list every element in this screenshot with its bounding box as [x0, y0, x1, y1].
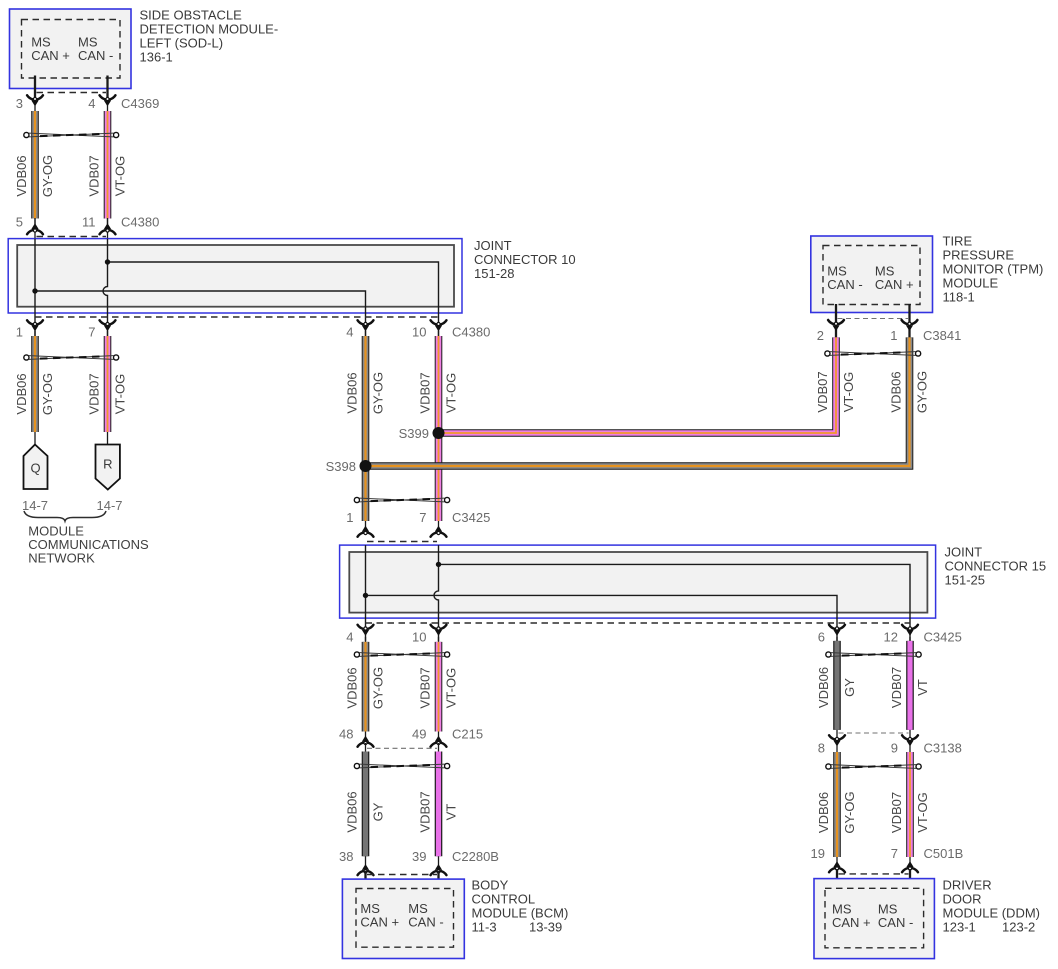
svg-text:7: 7	[419, 510, 426, 525]
inline connector hooks below C3425 (right)	[831, 653, 916, 657]
svg-text:C3425: C3425	[924, 630, 962, 645]
svg-text:118-1: 118-1	[943, 290, 975, 305]
svg-text:38: 38	[339, 849, 353, 864]
svg-text:VDB07: VDB07	[418, 791, 433, 832]
svg-text:C501B: C501B	[924, 846, 964, 861]
svg-text:4: 4	[346, 325, 353, 340]
svg-text:C4380: C4380	[452, 325, 490, 340]
connector C4380 pin 7 arrow	[100, 320, 116, 324]
svg-text:C3841: C3841	[923, 328, 961, 343]
svg-text:VDB07: VDB07	[418, 372, 433, 413]
connector C3138 dashed link	[839, 732, 909, 734]
svg-text:PRESSURE: PRESSURE	[943, 248, 1015, 263]
svg-text:VDB07: VDB07	[87, 373, 102, 414]
svg-text:11: 11	[82, 215, 96, 230]
svg-text:14-7: 14-7	[22, 498, 48, 513]
svg-text:VDB06: VDB06	[816, 792, 831, 833]
connector C3425 pin 6 arrow	[829, 625, 845, 629]
wire VDB06 GY-OG (SOD-L pin 3 to C4380 pin 5)	[34, 105, 36, 224]
svg-text:VT-OG: VT-OG	[112, 374, 127, 414]
svg-text:TIRE: TIRE	[943, 234, 973, 249]
svg-text:39: 39	[412, 849, 426, 864]
connector C3425 pin 4 arrow	[358, 625, 374, 629]
inline connector hooks above C2280B	[360, 764, 445, 768]
connector C4380 pin 1 arrow	[27, 320, 43, 324]
wire VDB07 VT-OG (C3138 pin 9 to DDM pin 7)	[909, 746, 911, 864]
svg-text:VT-OG: VT-OG	[112, 156, 127, 196]
connector C3841 dashed link	[838, 318, 909, 320]
svg-text:7: 7	[88, 325, 95, 340]
svg-text:VDB06: VDB06	[345, 667, 360, 708]
svg-text:S399: S399	[399, 426, 429, 441]
svg-text:151-28: 151-28	[474, 266, 514, 281]
joint connector 10 description	[474, 238, 576, 281]
joint connector 15 internal bus wire from pin 1 to pin 4 and pin 6	[365, 545, 367, 641]
svg-text:CAN -: CAN -	[827, 277, 862, 292]
connector C3425 pin 1 arrow	[358, 533, 374, 537]
connector C2280B dashed link	[367, 874, 437, 876]
svg-text:S398: S398	[326, 459, 356, 474]
connector C4380 pin 5 arrow	[34, 218, 36, 245]
svg-text:5: 5	[16, 215, 23, 230]
svg-text:123-1: 123-1	[943, 920, 976, 935]
connector C3425 pin 7 arrow	[431, 533, 447, 537]
svg-text:13-39: 13-39	[529, 919, 562, 934]
connector C3841 pin 1 arrow	[902, 320, 918, 324]
module communications network note	[28, 524, 149, 566]
svg-text:14-7: 14-7	[96, 498, 122, 513]
connector C4369 dashed link	[37, 92, 107, 94]
joint connector 10 internal bus wire from pin 11 to pin 7 and pin 10 (with hop)	[103, 239, 107, 336]
svg-text:C2280B: C2280B	[452, 849, 499, 864]
connector C3138 pin 8 arrow	[829, 735, 845, 739]
svg-text:7: 7	[891, 846, 898, 861]
connector C3841 pin 2 arrow	[828, 320, 844, 324]
wire VDB07 VT (C215 pin 49 to BCM pin 39)	[438, 743, 440, 866]
svg-text:CAN +: CAN +	[31, 48, 70, 63]
svg-text:VDB07: VDB07	[87, 155, 102, 196]
svg-text:123-2: 123-2	[1002, 920, 1035, 935]
svg-text:151-25: 151-25	[945, 573, 985, 588]
connector C4380 pin 10 arrow	[431, 320, 447, 324]
svg-text:9: 9	[891, 741, 898, 756]
svg-text:VDB06: VDB06	[345, 372, 360, 413]
svg-text:DOOR: DOOR	[943, 892, 982, 907]
connector C215 dashed link	[367, 747, 437, 749]
wire VDB07 VT-OG (C3425 pin 10 to C215 pin 49)	[438, 637, 440, 743]
svg-text:10: 10	[412, 630, 426, 645]
network connector Q symbol	[24, 445, 48, 490]
joint connector 15 junction node on VT bus	[436, 562, 441, 567]
connector C3425 dashed link (top)	[367, 541, 437, 543]
joint connector 10 junction node on GY-OG bus	[32, 288, 37, 293]
inline connector hooks on TPM wires	[830, 352, 916, 356]
wire VDB07 VT-OG (C4380 pin 7 to network connector R)	[107, 331, 109, 446]
wire VDB06 GY-OG (C3138 pin 8 to DDM pin 19)	[836, 746, 838, 864]
svg-text:C3138: C3138	[924, 741, 962, 756]
svg-text:MODULE (BCM): MODULE (BCM)	[472, 905, 569, 920]
wire stub SOD-L MS CAN -	[106, 76, 108, 98]
svg-text:BODY: BODY	[472, 877, 509, 892]
svg-text:JOINT: JOINT	[474, 238, 512, 253]
splice S399	[433, 427, 445, 439]
svg-text:GY-OG: GY-OG	[842, 791, 857, 833]
svg-text:GY: GY	[370, 802, 385, 821]
wire stub DDM MS CAN -	[909, 869, 911, 889]
svg-text:10: 10	[412, 325, 426, 340]
svg-text:DETECTION MODULE-: DETECTION MODULE-	[140, 22, 279, 37]
connector C2280B pin 39 arrow	[431, 871, 447, 875]
svg-text:CONTROL: CONTROL	[472, 891, 536, 906]
svg-text:VDB07: VDB07	[815, 371, 830, 412]
svg-text:2: 2	[817, 328, 824, 343]
svg-text:VT-OG: VT-OG	[915, 792, 930, 832]
svg-text:VT-OG: VT-OG	[443, 668, 458, 708]
svg-text:MONITOR (TPM): MONITOR (TPM)	[943, 262, 1044, 277]
module SOD-L description text	[140, 8, 279, 65]
svg-text:6: 6	[818, 630, 825, 645]
inline connector hooks above C501B	[831, 765, 916, 769]
module TPM (Tire Pressure Monitor) box 118-1	[811, 236, 933, 313]
connector C501B pin 19 arrow	[829, 868, 845, 872]
svg-text:VDB06: VDB06	[14, 155, 29, 196]
svg-text:GY-OG: GY-OG	[370, 667, 385, 709]
wire VDB06 GY-OG branch from splice S398 to TPM pin 1	[366, 337, 910, 466]
wire stub TPM MS CAN -	[835, 304, 837, 340]
joint connector 15 internal bus wire from pin 7 to pin 10 and pin 12 (with hop)	[434, 545, 439, 641]
svg-text:VDB07: VDB07	[889, 667, 904, 708]
joint connector 15 description	[945, 545, 1047, 588]
svg-text:CAN +: CAN +	[832, 915, 871, 930]
svg-text:GY-OG: GY-OG	[370, 372, 385, 414]
svg-text:Q: Q	[30, 461, 40, 476]
svg-text:C4369: C4369	[121, 96, 159, 111]
network connector R symbol	[96, 445, 120, 490]
wire stub DDM MS CAN +	[836, 869, 838, 889]
svg-text:19: 19	[811, 846, 825, 861]
svg-text:VT-OG: VT-OG	[841, 372, 856, 412]
inline connector hooks on C4369 wires	[29, 133, 114, 137]
brace under network connectors	[24, 511, 106, 521]
connector C4380 pin 4 arrow	[358, 320, 374, 324]
inline connector hooks above C3425	[360, 498, 445, 502]
joint connector 15 box	[340, 545, 936, 618]
svg-text:12: 12	[884, 630, 898, 645]
connector C501B pin 7 arrow	[902, 868, 918, 872]
svg-text:GY-OG: GY-OG	[40, 373, 55, 415]
svg-text:1: 1	[16, 325, 23, 340]
connector C3425 pin 10 arrow	[431, 625, 447, 629]
svg-text:VDB07: VDB07	[889, 792, 904, 833]
joint connector 10 junction node on VT-OG bus	[105, 259, 110, 264]
svg-text:R: R	[103, 457, 112, 472]
inline connector hooks below C3425	[360, 653, 445, 657]
connector C3138 pin 9 arrow	[902, 735, 918, 739]
wire stub BCM MS CAN -	[437, 871, 439, 890]
svg-text:DRIVER: DRIVER	[943, 878, 992, 893]
svg-text:8: 8	[818, 741, 825, 756]
svg-text:CAN -: CAN -	[878, 915, 913, 930]
svg-text:VDB07: VDB07	[418, 667, 433, 708]
connector C4369 pin 3 arrow	[27, 95, 43, 99]
wire VDB06 GY (C215 pin 48 to BCM pin 38)	[365, 743, 367, 866]
svg-text:48: 48	[339, 727, 353, 742]
svg-text:VT-OG: VT-OG	[443, 373, 458, 413]
wire VDB06 GY-OG (C3425 pin 4 to C215 pin 48)	[365, 637, 367, 743]
connector C3425 dashed link (bottom)	[366, 622, 911, 624]
svg-text:VT: VT	[915, 679, 930, 696]
svg-text:CAN +: CAN +	[875, 277, 914, 292]
inline connector hooks below C4380	[29, 356, 114, 360]
connector C3425 pin 12 arrow	[902, 625, 918, 629]
connector C215 pin 48 arrow	[358, 743, 374, 747]
svg-text:3: 3	[16, 96, 23, 111]
svg-text:VDB06: VDB06	[889, 371, 904, 412]
svg-text:49: 49	[412, 727, 426, 742]
splice S398	[360, 460, 372, 472]
joint connector 10 internal bus wire from pin 5 to pin 1 and pin 4	[34, 239, 36, 336]
svg-text:MODULE: MODULE	[943, 276, 999, 291]
svg-text:11-3: 11-3	[472, 919, 497, 934]
wire stub SOD-L MS CAN +	[34, 76, 36, 98]
svg-text:C4380: C4380	[121, 215, 159, 230]
wire VDB06 GY (C3425 pin 6 to C3138 pin 8)	[836, 637, 838, 746]
svg-text:JOINT: JOINT	[945, 545, 983, 560]
module BCM description text	[472, 877, 569, 934]
svg-text:VDB06: VDB06	[816, 667, 831, 708]
wire VDB06 GY-OG (C4380 pin 1 to network connector Q)	[34, 331, 36, 446]
svg-text:CONNECTOR 10: CONNECTOR 10	[474, 252, 576, 267]
svg-text:SIDE OBSTACLE: SIDE OBSTACLE	[140, 8, 243, 23]
joint connector 10 box	[8, 239, 462, 313]
wire VDB07 VT (C3425 pin 12 to C3138 pin 9)	[909, 637, 911, 746]
svg-text:GY: GY	[842, 678, 857, 697]
svg-text:1: 1	[346, 510, 353, 525]
svg-text:GY-OG: GY-OG	[914, 371, 929, 413]
module SOD-L (Side Obstacle Detection Module-Left) box 136-1	[10, 9, 132, 89]
connector C4369 pin 4 arrow	[100, 95, 116, 99]
module DDM (Driver Door Module) box	[814, 879, 934, 959]
connector C4380 dashed link (top)	[37, 236, 107, 238]
svg-text:CAN -: CAN -	[408, 915, 443, 930]
svg-text:MODULE (DDM): MODULE (DDM)	[943, 906, 1041, 921]
svg-text:VT: VT	[443, 804, 458, 821]
wire stub TPM MS CAN +	[908, 304, 910, 340]
wire VDB06 GY-OG (C4380 pin 4 to C3425 pin 1)	[365, 331, 367, 533]
svg-text:VDB06: VDB06	[345, 791, 360, 832]
wire VDB07 VT-OG (SOD-L pin 4 to C4380 pin 11)	[107, 105, 109, 224]
module BCM (Body Control Module) box	[342, 879, 464, 958]
svg-text:136-1: 136-1	[140, 50, 173, 65]
svg-text:4: 4	[88, 96, 95, 111]
svg-text:CAN -: CAN -	[78, 48, 113, 63]
svg-text:VDB06: VDB06	[14, 373, 29, 414]
connector C4380 dashed link (bottom)	[35, 316, 439, 318]
svg-text:4: 4	[346, 630, 353, 645]
svg-text:GY-OG: GY-OG	[40, 155, 55, 197]
svg-text:LEFT (SOD-L): LEFT (SOD-L)	[140, 36, 224, 51]
module TPM description text	[943, 234, 1044, 305]
connector C215 pin 49 arrow	[431, 743, 447, 747]
connector C501B dashed link	[839, 873, 909, 875]
svg-text:1: 1	[890, 328, 897, 343]
svg-text:CAN +: CAN +	[360, 915, 399, 930]
svg-text:NETWORK: NETWORK	[28, 551, 95, 566]
module DDM description text	[943, 878, 1041, 935]
joint connector 15 junction node on GY bus	[363, 593, 368, 598]
wire VDB07 VT-OG (C4380 pin 10 to C3425 pin 7)	[438, 331, 440, 533]
wire stub BCM MS CAN +	[364, 871, 366, 890]
connector C2280B pin 38 arrow	[358, 871, 374, 875]
svg-text:C215: C215	[452, 727, 483, 742]
wire VDB07 VT-OG branch from splice S399 to TPM pin 2	[439, 337, 837, 433]
svg-text:C3425: C3425	[452, 510, 490, 525]
svg-text:CONNECTOR 15: CONNECTOR 15	[945, 559, 1047, 574]
connector C4380 pin 11 arrow	[107, 218, 109, 245]
